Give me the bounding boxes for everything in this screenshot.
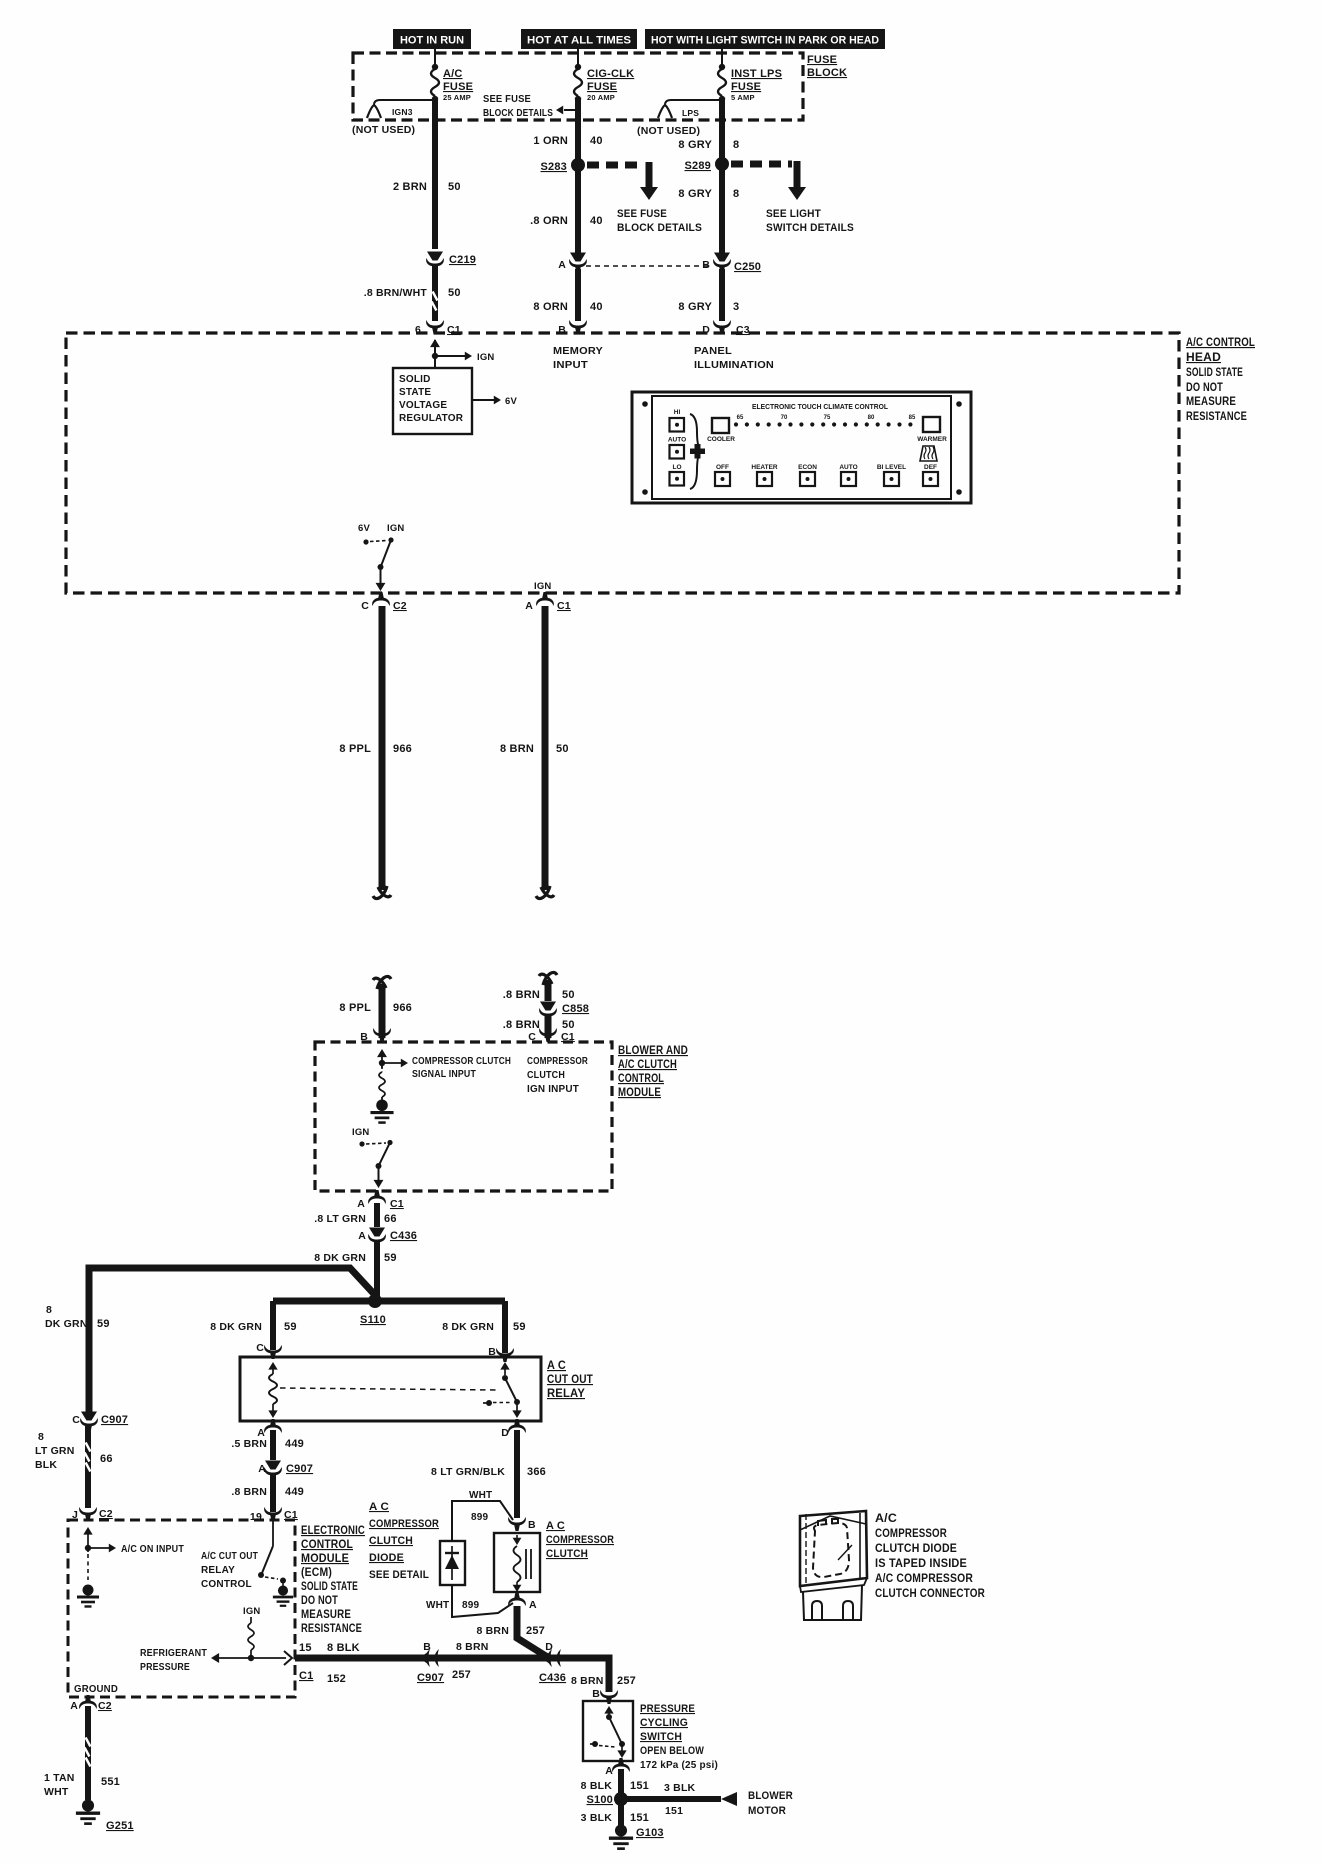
svg-text:8 BLK: 8 BLK [581, 1780, 613, 1792]
wire 2 BRN 50 from A/C fuse [393, 100, 461, 249]
svg-text:CLUTCH CONNECTOR: CLUTCH CONNECTOR [875, 1588, 985, 1600]
svg-text:C907: C907 [417, 1672, 444, 1684]
connector C907 (B) on bottom run [417, 1641, 489, 1684]
svg-text:AUTO: AUTO [839, 464, 857, 471]
A/C compressor clutch connector sketch [800, 1511, 867, 1620]
svg-text:COMPRESSOR: COMPRESSOR [527, 1056, 588, 1067]
pressure cycling switch box [583, 1701, 633, 1761]
svg-text:1 TAN: 1 TAN [44, 1772, 75, 1784]
svg-text:(NOT USED): (NOT USED) [637, 125, 700, 137]
relay pin D [501, 1419, 526, 1439]
svg-text:C1: C1 [299, 1670, 313, 1682]
svg-text:J: J [72, 1509, 78, 1521]
svg-text:2 BRN: 2 BRN [393, 181, 427, 193]
electronic touch climate control panel [632, 392, 971, 503]
pressure switch label [640, 1703, 718, 1771]
svg-text:COMPRESSOR: COMPRESSOR [369, 1518, 439, 1530]
svg-text:A C: A C [547, 1360, 566, 1372]
pin A C1 control head IGN output [525, 581, 571, 612]
dashed link line of connector C250 [586, 265, 712, 267]
svg-text:HEAD: HEAD [1186, 352, 1221, 364]
svg-text:25 AMP: 25 AMP [443, 93, 471, 102]
svg-text:MEASURE: MEASURE [1186, 396, 1236, 408]
svg-text:MEASURE: MEASURE [301, 1609, 351, 1621]
svg-text:STATE: STATE [399, 387, 431, 398]
power tag HOT IN RUN [393, 29, 471, 49]
svg-text:G251: G251 [106, 1820, 134, 1832]
svg-text:8 ORN: 8 ORN [533, 301, 568, 313]
svg-text:6V: 6V [505, 396, 517, 407]
IGN pull-up resistor [243, 1606, 261, 1658]
svg-text:A: A [70, 1700, 78, 1712]
clutch coil [513, 1535, 531, 1592]
wire stub from HOT AT ALL TIMES to CIG-CLK fuse [577, 49, 579, 66]
svg-text:INST LPS: INST LPS [731, 68, 782, 80]
pin 15 C1 labels [299, 1642, 360, 1685]
svg-text:8 LT GRN/BLK: 8 LT GRN/BLK [431, 1466, 505, 1478]
ECM pin 19 C1 [250, 1507, 298, 1523]
svg-text:RELAY: RELAY [547, 1388, 585, 1400]
wire 8 DK GRN 59 to relay pin B [442, 1301, 525, 1353]
svg-text:(ECM): (ECM) [301, 1567, 332, 1579]
svg-text:75: 75 [824, 415, 831, 421]
svg-text:WARMER: WARMER [917, 436, 947, 443]
connector C858 [539, 1002, 589, 1023]
svg-text:65: 65 [737, 415, 744, 421]
connector C436 (A) [358, 1228, 417, 1249]
connector C907 (A) [258, 1461, 313, 1482]
svg-text:IS TAPED INSIDE: IS TAPED INSIDE [875, 1558, 967, 1570]
svg-text:PANEL: PANEL [694, 345, 732, 357]
pin C C2 control head output [361, 592, 407, 612]
svg-text:50: 50 [448, 287, 461, 299]
svg-text:40: 40 [590, 301, 603, 313]
svg-text:COOLER: COOLER [707, 436, 735, 443]
label MEMORY INPUT [553, 345, 603, 371]
svg-text:50: 50 [556, 743, 569, 755]
clutch label [546, 1520, 614, 1560]
svg-text:WHT: WHT [426, 1600, 449, 1611]
svg-text:59: 59 [513, 1321, 526, 1333]
svg-text:CONTROL: CONTROL [301, 1539, 353, 1551]
svg-text:ECON: ECON [798, 464, 817, 471]
svg-text:OFF: OFF [716, 464, 729, 471]
label BLOWER MOTOR [748, 1790, 793, 1817]
svg-text:PRESSURE: PRESSURE [140, 1662, 190, 1673]
wire .8 LT GRN 66 [314, 1203, 396, 1227]
splice S100 [587, 1792, 629, 1806]
wire .8 LT GRN/BLK 66 to ECM pin J [35, 1426, 113, 1508]
pin B of blower control module [360, 1028, 391, 1043]
wire .8 ORN 40 to memory input [533, 269, 602, 321]
wire 8 BRN 50 upper run [500, 606, 569, 899]
svg-text:SEE FUSE: SEE FUSE [483, 93, 531, 105]
compressor clutch signal input node [377, 1049, 511, 1080]
svg-text:A: A [605, 1765, 613, 1777]
relay coil [268, 1362, 277, 1418]
fuse A/C FUSE 25 AMP [431, 64, 473, 102]
svg-text:SOLID STATE: SOLID STATE [1186, 367, 1243, 379]
svg-text:MODULE: MODULE [301, 1553, 349, 1565]
svg-text:50: 50 [562, 1019, 575, 1031]
svg-text:LT GRN: LT GRN [35, 1445, 75, 1457]
svg-text:D: D [545, 1641, 553, 1653]
svg-text:59: 59 [384, 1252, 397, 1264]
label PANEL ILLUMINATION [694, 345, 774, 371]
dashed drop and ground inside ECM [77, 1554, 99, 1607]
pin A C1 blower module output [357, 1190, 404, 1210]
svg-text:A: A [358, 1230, 366, 1242]
wire stub from HOT IN RUN to A/C fuse [434, 49, 436, 66]
fuse block label [807, 54, 847, 79]
IGN switch inside blower module [352, 1127, 393, 1188]
svg-text:C907: C907 [101, 1414, 128, 1426]
label COMPRESSOR CLUTCH IGN INPUT [527, 1056, 588, 1095]
branch 3 BLK 151 to blower motor [626, 1782, 737, 1817]
svg-text:FUSE: FUSE [443, 81, 473, 93]
svg-text:.8 BRN: .8 BRN [503, 989, 540, 1001]
GROUND label inside ECM [74, 1684, 118, 1695]
svg-text:899: 899 [462, 1600, 480, 1611]
svg-text:ELECTRONIC: ELECTRONIC [301, 1525, 365, 1537]
svg-text:IGN3: IGN3 [392, 107, 413, 117]
svg-text:40: 40 [590, 135, 603, 147]
LPS branch (NOT USED) [637, 100, 722, 137]
svg-text:C: C [72, 1414, 80, 1426]
svg-text:A: A [529, 1599, 537, 1611]
svg-text:IGN: IGN [477, 352, 495, 363]
svg-text:OPEN BELOW: OPEN BELOW [640, 1745, 704, 1757]
ECM pin A C2 ground output [70, 1695, 112, 1712]
pin C C1 of blower control module [528, 1028, 575, 1043]
diode symbol [445, 1546, 459, 1580]
svg-text:B: B [423, 1641, 431, 1653]
clutch pin A [508, 1592, 537, 1611]
svg-text:966: 966 [393, 1002, 412, 1014]
svg-text:COMPRESSOR CLUTCH: COMPRESSOR CLUTCH [412, 1056, 511, 1067]
svg-text:BLOCK DETAILS: BLOCK DETAILS [617, 222, 702, 234]
svg-text:151: 151 [630, 1780, 649, 1792]
A/C control head label [1186, 337, 1255, 423]
svg-text:SIGNAL INPUT: SIGNAL INPUT [412, 1069, 476, 1080]
svg-text:BLOWER: BLOWER [748, 1790, 793, 1802]
svg-text:ILLUMINATION: ILLUMINATION [694, 359, 774, 371]
svg-text:RELAY: RELAY [201, 1565, 235, 1576]
pressure switch pin A [605, 1758, 630, 1777]
svg-text:A/C ON INPUT: A/C ON INPUT [121, 1544, 184, 1555]
svg-text:FUSE: FUSE [587, 81, 617, 93]
relay label [547, 1360, 593, 1400]
electronic control module dashed box [68, 1520, 295, 1697]
svg-text:966: 966 [393, 743, 412, 755]
wire 8 GRY 8 from INST LPS fuse [678, 100, 739, 159]
6V output arrow of regulator [472, 396, 517, 407]
svg-text:172 kPa (25 psi): 172 kPa (25 psi) [640, 1760, 718, 1771]
svg-text:MOTOR: MOTOR [748, 1805, 786, 1817]
wire 8 DK GRN 59 to S110 [314, 1242, 396, 1298]
A/C compressor clutch box [494, 1533, 540, 1592]
svg-text:C1: C1 [390, 1198, 404, 1210]
svg-text:8 PPL: 8 PPL [339, 1002, 371, 1014]
svg-text:IGN INPUT: IGN INPUT [527, 1084, 579, 1095]
svg-text:C436: C436 [390, 1230, 417, 1242]
svg-text:C250: C250 [734, 261, 761, 273]
svg-text:MODULE: MODULE [618, 1087, 661, 1099]
A/C control head dashed box [66, 333, 1179, 593]
svg-text:SWITCH: SWITCH [640, 1731, 682, 1743]
svg-text:DO NOT: DO NOT [301, 1595, 338, 1607]
svg-text:899: 899 [471, 1512, 489, 1523]
svg-text:A/C CLUTCH: A/C CLUTCH [618, 1059, 677, 1071]
svg-text:LO: LO [672, 464, 681, 471]
svg-text:SOLID: SOLID [399, 374, 431, 385]
svg-text:BLOWER AND: BLOWER AND [618, 1045, 688, 1057]
svg-text:8 BRN: 8 BRN [456, 1641, 489, 1653]
svg-text:FUSE: FUSE [807, 54, 837, 66]
wire 8 LT GRN/BLK 366 relay D to clutch B [431, 1430, 546, 1518]
svg-text:C: C [256, 1342, 264, 1354]
svg-text:S289: S289 [685, 160, 712, 172]
connector sketch note [875, 1513, 985, 1600]
svg-text:RESISTANCE: RESISTANCE [301, 1623, 362, 1635]
A/C compressor clutch diode box [440, 1541, 465, 1585]
wire 8 BLK 151 [581, 1769, 649, 1794]
svg-text:8 GRY: 8 GRY [678, 139, 712, 151]
A/C cut out relay box [240, 1357, 541, 1421]
svg-text:DK GRN: DK GRN [45, 1318, 88, 1330]
svg-text:59: 59 [284, 1321, 297, 1333]
ground under relay control switch [273, 1583, 293, 1606]
wire 8 DK GRN 59 to relay pin C [210, 1301, 296, 1350]
svg-text:C436: C436 [539, 1672, 566, 1684]
dashed branch from S289 to SEE LIGHT SWITCH DETAILS arrow [731, 161, 854, 234]
connector C250 pin B [702, 253, 761, 274]
pin D C3 panel illumination [702, 320, 750, 336]
svg-text:.5 BRN: .5 BRN [231, 1438, 267, 1450]
svg-text:HOT AT ALL TIMES: HOT AT ALL TIMES [527, 35, 631, 47]
svg-text:REFRIGERANT: REFRIGERANT [140, 1648, 207, 1659]
svg-text:CLUTCH: CLUTCH [527, 1070, 565, 1081]
ECM label [301, 1525, 365, 1635]
svg-text:A/C COMPRESSOR: A/C COMPRESSOR [875, 1573, 973, 1585]
wire 8 BRN 257 clutch A to bottom run [476, 1606, 549, 1658]
branch wire to ECM (corner + long left run) [89, 1268, 375, 1412]
relay pin A [257, 1419, 282, 1439]
wire from pin C1 to voltage regulator with IGN tap [430, 339, 494, 368]
svg-text:551: 551 [101, 1776, 120, 1788]
splice S289 [685, 157, 730, 172]
wire 8 GRY 3 to panel illumination [678, 269, 739, 321]
svg-text:IGN: IGN [534, 581, 552, 592]
svg-text:VOLTAGE: VOLTAGE [399, 400, 447, 411]
svg-text:8: 8 [38, 1431, 44, 1443]
wire .8 BRN 50 with connector C858 [503, 972, 575, 1001]
svg-text:257: 257 [526, 1625, 545, 1637]
svg-text:WHT: WHT [469, 1490, 492, 1501]
connector C907 (C) [72, 1412, 128, 1433]
A/C on input node [83, 1527, 184, 1555]
svg-text:3: 3 [733, 301, 739, 313]
svg-text:LPS: LPS [682, 108, 699, 118]
6V-IGN selector switch inside control head [358, 523, 405, 591]
svg-text:A C: A C [546, 1520, 565, 1532]
svg-text:151: 151 [630, 1812, 649, 1824]
svg-text:B: B [528, 1519, 536, 1531]
svg-text:A C: A C [369, 1501, 389, 1513]
svg-text:DEF: DEF [924, 464, 937, 471]
svg-text:B: B [592, 1688, 600, 1700]
wire 1 TAN/WHT 551 [44, 1706, 120, 1800]
pin 6 C1 at A/C control head [415, 320, 461, 336]
svg-text:HOT WITH LIGHT SWITCH IN PARK: HOT WITH LIGHT SWITCH IN PARK OR HEAD [651, 35, 879, 47]
wire 1 ORN 40 from CIG-CLK fuse [533, 100, 602, 160]
svg-text:.8 BRN/WHT: .8 BRN/WHT [364, 287, 428, 299]
ground G103 [609, 1824, 664, 1848]
wire 8 GRY 8 [678, 164, 739, 253]
svg-text:FUSE: FUSE [731, 81, 761, 93]
svg-text:A: A [258, 1463, 266, 1475]
connector C219 [426, 252, 476, 273]
fuse INST LPS FUSE 5 AMP [718, 64, 782, 102]
relay switch [483, 1362, 522, 1418]
svg-text:CUT OUT: CUT OUT [547, 1374, 593, 1386]
blower and A/C clutch control module dashed box [315, 1042, 612, 1191]
svg-text:8: 8 [46, 1304, 52, 1316]
connector C250 pin A [558, 253, 587, 274]
svg-text:8: 8 [733, 139, 739, 151]
svg-text:D: D [501, 1427, 509, 1439]
svg-text:CLUTCH: CLUTCH [369, 1535, 413, 1547]
svg-text:20 AMP: 20 AMP [587, 93, 615, 102]
svg-text:8 DK GRN: 8 DK GRN [314, 1252, 366, 1264]
svg-text:B: B [702, 259, 710, 271]
A/C cut out relay control switch [201, 1520, 286, 1590]
relay pin B [488, 1346, 514, 1362]
svg-text:SOLID STATE: SOLID STATE [301, 1581, 358, 1593]
wire .8 BRN 50 to pin C [503, 1016, 575, 1038]
svg-text:66: 66 [100, 1453, 113, 1465]
wire .8 ORN 40 [530, 165, 603, 253]
svg-text:C2: C2 [99, 1508, 113, 1520]
svg-text:C: C [361, 600, 369, 612]
svg-text:A: A [357, 1198, 365, 1210]
svg-text:A/C: A/C [443, 68, 463, 80]
svg-text:C219: C219 [449, 254, 476, 266]
svg-text:DIODE: DIODE [369, 1552, 404, 1564]
svg-text:BLK: BLK [35, 1459, 57, 1471]
svg-text:GROUND: GROUND [74, 1684, 118, 1695]
wire 3 BLK 151 to ground [581, 1799, 649, 1826]
svg-text:8 BRN: 8 BRN [571, 1675, 604, 1687]
svg-text:SEE FUSE: SEE FUSE [617, 208, 667, 220]
svg-text:MEMORY: MEMORY [553, 345, 603, 357]
svg-text:.8 LT GRN: .8 LT GRN [314, 1213, 366, 1225]
svg-text:IGN: IGN [352, 1127, 370, 1138]
svg-text:8 GRY: 8 GRY [678, 301, 712, 313]
svg-text:SEE LIGHT: SEE LIGHT [766, 208, 821, 220]
svg-text:449: 449 [285, 1486, 304, 1498]
connector C436 (D) on bottom run [539, 1641, 636, 1687]
power tag HOT WITH LIGHT SWITCH IN PARK OR HEAD [645, 29, 885, 49]
wire 8 PPL 966 upper run [339, 606, 412, 899]
wire 8 PPL 966 lower run [339, 976, 412, 1038]
wire stub from HOT WITH LIGHT SWITCH to INST LPS fuse [721, 49, 723, 66]
refrigerant pressure line [140, 1648, 292, 1673]
label 8 DK GRN 59 left branch [45, 1304, 110, 1330]
svg-text:8 GRY: 8 GRY [678, 188, 712, 200]
svg-text:A/C: A/C [875, 1513, 897, 1525]
svg-text:(NOT USED): (NOT USED) [352, 124, 415, 136]
wire .8 BRN 449 to ECM pin 19 [231, 1475, 304, 1512]
svg-text:HOT IN RUN: HOT IN RUN [400, 35, 464, 47]
svg-text:RESISTANCE: RESISTANCE [1186, 411, 1247, 423]
svg-text:.8 BRN: .8 BRN [231, 1486, 267, 1498]
splice S283 [541, 158, 586, 173]
svg-text:8 DK GRN: 8 DK GRN [442, 1321, 494, 1333]
svg-text:59: 59 [97, 1318, 110, 1330]
svg-text:449: 449 [285, 1438, 304, 1450]
svg-text:8 BRN: 8 BRN [476, 1625, 509, 1637]
svg-text:PRESSURE: PRESSURE [640, 1703, 695, 1715]
svg-text:IGN: IGN [243, 1606, 261, 1617]
splice S110 [273, 1294, 505, 1326]
svg-text:WHT: WHT [44, 1786, 69, 1798]
svg-text:SWITCH DETAILS: SWITCH DETAILS [766, 222, 854, 234]
svg-text:BI LEVEL: BI LEVEL [877, 464, 906, 471]
svg-text:8 PPL: 8 PPL [339, 743, 371, 755]
svg-text:.8 BRN: .8 BRN [503, 1019, 540, 1031]
relay dashed actuation line [280, 1388, 498, 1390]
svg-text:257: 257 [452, 1669, 471, 1681]
svg-text:A/C CONTROL: A/C CONTROL [1186, 337, 1255, 349]
blower module label [618, 1045, 688, 1099]
svg-text:3 BLK: 3 BLK [664, 1782, 696, 1794]
fuse block dashed box [353, 53, 803, 120]
svg-text:257: 257 [617, 1675, 636, 1687]
svg-text:ELECTRONIC TOUCH CLIMATE CONTR: ELECTRONIC TOUCH CLIMATE CONTROL [752, 402, 888, 411]
svg-text:5 AMP: 5 AMP [731, 93, 755, 102]
svg-text:G103: G103 [636, 1827, 664, 1839]
svg-text:HI: HI [674, 409, 681, 416]
svg-text:CYCLING: CYCLING [640, 1717, 688, 1729]
relay pin C [256, 1342, 282, 1359]
svg-text:S283: S283 [541, 161, 568, 173]
svg-text:REGULATOR: REGULATOR [399, 413, 464, 424]
svg-text:CLUTCH: CLUTCH [546, 1548, 588, 1560]
wire 8 BLK 152 / 8 BRN 257 bottom run [295, 1658, 609, 1692]
svg-text:A: A [525, 600, 533, 612]
svg-text:15: 15 [299, 1642, 312, 1654]
svg-text:1 ORN: 1 ORN [533, 135, 568, 147]
fuse CIG-CLK FUSE 20 AMP [574, 64, 634, 102]
svg-text:152: 152 [327, 1673, 346, 1685]
svg-text:85: 85 [909, 415, 916, 421]
svg-text:S100: S100 [587, 1794, 614, 1806]
svg-text:A: A [558, 259, 566, 271]
svg-text:8: 8 [733, 188, 739, 200]
svg-text:80: 80 [868, 415, 875, 421]
svg-text:6V: 6V [358, 523, 370, 534]
svg-text:C1: C1 [557, 600, 571, 612]
solid state voltage regulator box [393, 368, 472, 434]
WHT 899 wire upper loop [452, 1490, 513, 1541]
svg-text:COMPRESSOR: COMPRESSOR [546, 1534, 614, 1546]
svg-text:C858: C858 [562, 1003, 589, 1015]
svg-text:A/C CUT OUT: A/C CUT OUT [201, 1551, 258, 1562]
svg-text:40: 40 [590, 215, 603, 227]
pressure switch pin B [592, 1688, 618, 1704]
svg-text:8 BLK: 8 BLK [327, 1642, 360, 1654]
